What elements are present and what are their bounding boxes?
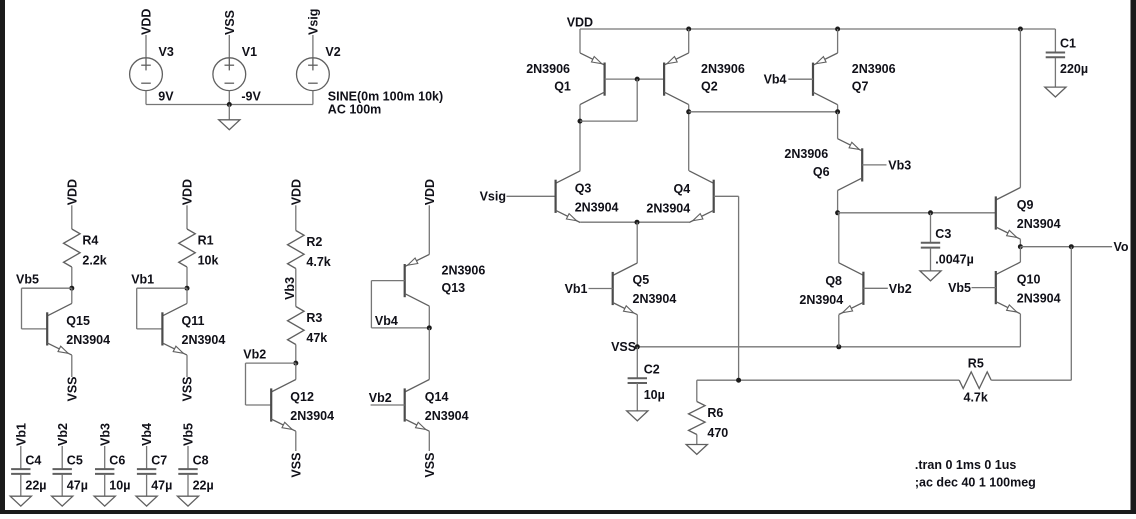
wire V2 bottom	[312, 91, 314, 105]
wire Q13 collector	[428, 306, 430, 328]
svg-text:2N3904: 2N3904	[1017, 292, 1061, 306]
svg-text:Q15: Q15	[66, 314, 90, 328]
wire Q13 base loop vertical	[370, 281, 372, 328]
wire Q6 collector	[837, 190, 839, 212]
svg-text:VDD: VDD	[181, 179, 195, 205]
wire Q15 emitter	[71, 355, 73, 377]
svg-text:2.2k: 2.2k	[82, 254, 106, 268]
svg-text:Vb3: Vb3	[98, 423, 112, 446]
wire Vb5 loop horizontal	[22, 287, 72, 289]
svg-text:2N3906: 2N3906	[784, 147, 828, 161]
wire Q7 base	[788, 78, 813, 80]
wire Q1 collector	[579, 105, 581, 171]
wire Vb2 loop to Q12 base	[246, 404, 272, 406]
transistor Q6	[838, 139, 863, 191]
wire feedback node left	[697, 379, 959, 381]
resistor R5	[959, 372, 991, 389]
svg-text:2N3904: 2N3904	[425, 409, 469, 423]
wire VDD to R1	[186, 205, 188, 229]
voltage source V1	[213, 58, 246, 91]
capacitor C5	[53, 469, 72, 474]
svg-text:VSS: VSS	[65, 376, 79, 401]
svg-text:VSS: VSS	[181, 376, 195, 401]
svg-text:2N3906: 2N3906	[701, 62, 745, 76]
ground below C1	[1045, 87, 1066, 97]
svg-text:Vb3: Vb3	[283, 277, 297, 300]
wire to source ground	[228, 105, 230, 120]
wire node to C3	[930, 213, 932, 243]
junction base line	[635, 77, 640, 82]
wire VDD to Q13 emitter	[428, 205, 430, 254]
wire Vb2 loop horizontal col3	[246, 362, 296, 364]
junction VSS at Q8	[836, 344, 841, 349]
resistor R6	[689, 402, 706, 435]
wire Q8 collector	[838, 213, 840, 263]
wire C6 to ground	[104, 475, 106, 497]
svg-text:Q7: Q7	[852, 80, 869, 94]
junction node Vb1 col2	[185, 286, 190, 291]
svg-text:C1: C1	[1060, 37, 1076, 51]
svg-text:SINE(0m 100m 10k): SINE(0m 100m 10k)	[328, 90, 443, 104]
wire Q10 base	[972, 287, 996, 289]
wire V2 top	[312, 35, 314, 58]
svg-text:Vb4: Vb4	[375, 314, 398, 328]
transistor Q10	[996, 262, 1021, 314]
ground below C3	[920, 271, 941, 281]
svg-text:Q9: Q9	[1017, 198, 1034, 212]
wire Q13 base loop horizontal	[371, 280, 404, 282]
wire Vb1 loop vertical	[136, 288, 138, 329]
svg-text:2N3904: 2N3904	[799, 293, 843, 307]
wire Vb1 loop to base	[137, 328, 163, 330]
wire Vb4 to C7	[146, 446, 148, 469]
transistor Q1	[580, 53, 605, 105]
wire VDD rail	[580, 28, 1055, 30]
capacitor C4	[11, 469, 30, 474]
svg-text:Q12: Q12	[290, 390, 314, 404]
wire Q5 base	[589, 288, 613, 290]
voltage source V2	[297, 58, 330, 91]
wire R4 to node Vb5	[71, 267, 73, 288]
wire output to Vo	[1020, 246, 1112, 248]
junction output node	[1018, 244, 1023, 249]
junction at C3	[928, 210, 933, 215]
junction Vo at R5 riser	[1069, 244, 1074, 249]
svg-text:2N3904: 2N3904	[66, 333, 110, 347]
svg-text:2N3904: 2N3904	[646, 201, 690, 215]
ground below sources	[219, 120, 240, 130]
wire diode link horizontal	[580, 120, 637, 122]
svg-text:C7: C7	[151, 453, 167, 467]
svg-text:C4: C4	[25, 453, 41, 467]
wire VSS to C2	[636, 347, 638, 378]
wire C7 to ground	[146, 475, 148, 497]
svg-text:Vb5: Vb5	[182, 423, 196, 446]
transistor Q13	[405, 254, 430, 306]
wire Q7 collector	[837, 105, 839, 112]
wire Q8 emitter	[838, 315, 840, 347]
wire Q13 base loop bottom	[371, 327, 429, 329]
svg-text:10µ: 10µ	[644, 388, 665, 402]
junction Q2 collector	[686, 109, 691, 114]
transistor Q8	[839, 263, 864, 315]
svg-text:Q5: Q5	[633, 273, 650, 287]
svg-text:Vb2: Vb2	[56, 423, 70, 446]
junction second stage node	[835, 210, 840, 215]
svg-text:;ac dec 40 1 100meg: ;ac dec 40 1 100meg	[915, 475, 1036, 489]
junction Q7 collector node	[835, 109, 840, 114]
wire Vb5 loop vertical	[21, 288, 23, 329]
svg-text:R2: R2	[306, 235, 322, 249]
wire Q1-Q2 base line	[605, 78, 665, 80]
svg-text:VDD: VDD	[567, 16, 593, 30]
svg-text:C3: C3	[935, 227, 951, 241]
frame right edge bar	[1131, 0, 1136, 514]
wire Vb5 loop to base	[22, 328, 48, 330]
wire Q10 collector	[1019, 247, 1021, 262]
wire Q6 emitter	[837, 112, 839, 139]
svg-text:V1: V1	[242, 45, 257, 59]
svg-text:10µ: 10µ	[109, 479, 130, 493]
wire Vb2 loop vertical col3	[245, 363, 247, 405]
wire R5 riser to Vo	[1070, 247, 1072, 380]
junction node Vb4 col4	[427, 325, 432, 330]
svg-text:Q1: Q1	[554, 80, 571, 94]
svg-text:Vb3: Vb3	[888, 158, 911, 172]
svg-text:Vb5: Vb5	[948, 281, 971, 295]
svg-text:Vo: Vo	[1114, 240, 1129, 254]
transistor Q4	[689, 171, 714, 223]
junction at V1 bottom	[227, 102, 232, 107]
transistor Q7	[813, 53, 838, 105]
svg-text:10k: 10k	[198, 254, 219, 268]
wire C1 to ground	[1054, 58, 1056, 87]
svg-text:R1: R1	[198, 234, 214, 248]
junction feedback node	[736, 378, 741, 383]
svg-text:Vb2: Vb2	[243, 348, 266, 362]
wire tail to Q5 collector	[636, 222, 638, 263]
transistor Q15	[47, 303, 72, 355]
svg-text:Vb4: Vb4	[764, 73, 787, 87]
svg-text:AC 100m: AC 100m	[328, 102, 382, 116]
svg-text:2N3906: 2N3906	[442, 264, 486, 278]
svg-text:47k: 47k	[306, 331, 327, 345]
capacitor C8	[178, 469, 197, 474]
wire diode link vertical	[636, 79, 638, 121]
ground below C8	[177, 496, 198, 506]
svg-text:Vb1: Vb1	[131, 272, 154, 286]
ground below C5	[52, 496, 73, 506]
svg-text:220µ: 220µ	[1060, 62, 1088, 76]
transistor Q11	[162, 303, 187, 355]
svg-text:V2: V2	[325, 45, 340, 59]
junction VDD rail at Q9	[1018, 27, 1023, 32]
capacitor C7	[137, 469, 156, 474]
ground below C6	[94, 496, 115, 506]
svg-text:VDD: VDD	[289, 179, 303, 205]
wire V3 top	[145, 35, 147, 58]
svg-text:47µ: 47µ	[151, 479, 172, 493]
svg-text:470: 470	[707, 426, 728, 440]
transistor Q12	[271, 380, 296, 432]
wire C8 to ground	[187, 475, 189, 497]
svg-text:C8: C8	[193, 453, 209, 467]
transistor Q9	[996, 188, 1021, 240]
resistor R2	[288, 231, 305, 269]
wire Vb3 to C6	[104, 446, 106, 469]
wire VDD to R4	[71, 205, 73, 229]
wire Q7 emitter	[837, 29, 839, 53]
wire Q9 emitter	[1019, 239, 1021, 247]
svg-text:R5: R5	[968, 357, 984, 371]
junction VDD rail at Q7	[835, 27, 840, 32]
wire Q4 base feedback vertical	[738, 196, 740, 380]
resistor R4	[64, 229, 81, 267]
svg-text:Vb4: Vb4	[140, 423, 154, 446]
resistor R3	[288, 307, 305, 345]
wire Q4 base	[714, 195, 739, 197]
wire Q12 collector	[295, 363, 297, 379]
svg-text:Q4: Q4	[674, 182, 691, 196]
svg-text:Q3: Q3	[575, 181, 592, 195]
junction VDD rail at Q2	[686, 27, 691, 32]
wire V1 top	[228, 35, 230, 58]
wire Q2 collector to Q7 collector	[689, 111, 838, 113]
ground below C2	[627, 411, 648, 421]
wire R3 to node Vb2	[295, 345, 297, 364]
wire Q5 emitter	[636, 315, 638, 347]
svg-text:Q11: Q11	[182, 314, 205, 328]
svg-text:22µ: 22µ	[25, 479, 46, 493]
svg-text:22µ: 22µ	[193, 479, 214, 493]
svg-text:VSS: VSS	[611, 340, 636, 354]
junction VSS at Q5	[635, 344, 640, 349]
svg-text:2N3906: 2N3906	[852, 62, 896, 76]
svg-text:9V: 9V	[158, 90, 174, 104]
wire Q2 emitter	[688, 29, 690, 53]
wire Q10 emitter	[1019, 314, 1021, 347]
capacitor C3	[921, 243, 940, 248]
wire C4 to ground	[20, 475, 22, 497]
svg-text:VSS: VSS	[223, 10, 237, 35]
wire R2 to R3 (node Vb3)	[295, 269, 297, 307]
wire VDD to R2	[295, 205, 297, 230]
svg-text:2N3904: 2N3904	[182, 333, 226, 347]
svg-text:2N3904: 2N3904	[290, 409, 334, 423]
svg-text:2N3904: 2N3904	[633, 292, 677, 306]
wire R6 to ground	[696, 435, 698, 445]
wire Vsig to Q3 base	[507, 195, 556, 197]
voltage source V3	[130, 58, 163, 91]
wire Q11 emitter	[186, 355, 188, 377]
svg-text:Vsig: Vsig	[480, 189, 506, 203]
frame bottom edge bar	[0, 510, 1136, 514]
wire R5 to riser	[991, 379, 1071, 381]
wire C5 to ground	[61, 475, 63, 497]
svg-text:Q14: Q14	[425, 390, 449, 404]
svg-text:4.7k: 4.7k	[964, 390, 988, 404]
svg-text:4.7k: 4.7k	[306, 255, 330, 269]
svg-text:Q10: Q10	[1017, 273, 1041, 287]
ground below R6	[686, 445, 707, 455]
svg-text:VDD: VDD	[65, 179, 79, 205]
svg-text:Q8: Q8	[825, 274, 842, 288]
svg-text:Vb2: Vb2	[889, 282, 912, 296]
svg-text:R6: R6	[707, 406, 723, 420]
wire Q6 base	[862, 164, 886, 166]
svg-text:VDD: VDD	[140, 9, 154, 35]
junction node Vb5 col1	[69, 286, 74, 291]
wire Q14 base	[371, 404, 405, 406]
svg-text:Q13: Q13	[442, 281, 466, 295]
wire Q9 collector	[1019, 29, 1021, 188]
junction node Vb2 col3	[293, 361, 298, 366]
wire V1 bottom	[228, 91, 230, 105]
svg-text:.0047µ: .0047µ	[935, 252, 973, 266]
wire Vb1 loop horizontal	[137, 287, 187, 289]
wire Q1 emitter	[579, 29, 581, 53]
svg-text:-9V: -9V	[241, 90, 261, 104]
wire Q12 emitter	[295, 431, 297, 451]
svg-text:VSS: VSS	[289, 453, 303, 478]
svg-text:VDD: VDD	[423, 179, 437, 205]
svg-text:2N3906: 2N3906	[526, 62, 570, 76]
svg-text:C2: C2	[644, 362, 660, 376]
svg-text:.tran 0 1ms 0 1us: .tran 0 1ms 0 1us	[915, 458, 1016, 472]
svg-text:Q6: Q6	[813, 165, 830, 179]
svg-text:Vb2: Vb2	[369, 391, 392, 405]
wire Q11 collector	[186, 288, 188, 303]
junction Q1 collector diode link	[578, 119, 583, 124]
wire Q3 collector	[579, 170, 581, 172]
svg-text:2N3904: 2N3904	[1017, 217, 1061, 231]
frame left edge bar	[0, 0, 5, 514]
svg-text:2N3904: 2N3904	[575, 200, 619, 214]
junction tail	[635, 220, 640, 225]
capacitor C1	[1046, 53, 1065, 58]
svg-text:Vb1: Vb1	[14, 423, 28, 446]
svg-text:V3: V3	[159, 45, 174, 59]
svg-text:Vsig: Vsig	[307, 9, 321, 35]
wire second stage node to Q9 base	[838, 212, 996, 214]
svg-text:Vb5: Vb5	[16, 272, 39, 286]
wire R1 to node Vb1	[186, 267, 188, 288]
resistor R1	[179, 229, 196, 267]
wire VDD rail to C1	[1054, 29, 1056, 53]
wire node to R6	[696, 380, 698, 401]
wire Q13 to Q14 collector	[428, 328, 430, 380]
svg-text:R4: R4	[82, 234, 98, 248]
wire Q14 emitter	[428, 431, 430, 451]
wire Vb1 to C4	[20, 446, 22, 469]
svg-text:C6: C6	[109, 453, 125, 467]
transistor Q5	[613, 263, 638, 315]
wire C2 to ground	[636, 383, 638, 411]
transistor Q3	[556, 171, 581, 223]
svg-text:Q2: Q2	[701, 80, 718, 94]
wire V3 bottom	[145, 91, 147, 105]
wire Q2 collector	[688, 105, 690, 171]
capacitor C2	[628, 378, 647, 383]
svg-text:Vb1: Vb1	[565, 282, 588, 296]
wire Q8 base	[863, 287, 887, 289]
svg-text:C5: C5	[67, 453, 83, 467]
wire Vb5 to C8	[187, 446, 189, 469]
svg-text:VSS: VSS	[423, 453, 437, 478]
wire Q15 collector	[71, 288, 73, 303]
wire Vb2 to C5	[61, 446, 63, 469]
ground below C4	[10, 496, 31, 506]
svg-text:47µ: 47µ	[67, 479, 88, 493]
wire C3 to ground	[930, 248, 932, 271]
wire VSS rail	[637, 346, 1020, 348]
wire source bus	[146, 104, 313, 106]
svg-text:R3: R3	[306, 311, 322, 325]
capacitor C6	[95, 469, 114, 474]
ground below C7	[136, 496, 157, 506]
transistor Q2	[664, 53, 689, 105]
transistor Q14	[405, 380, 430, 432]
wire diff pair tail	[580, 221, 689, 223]
